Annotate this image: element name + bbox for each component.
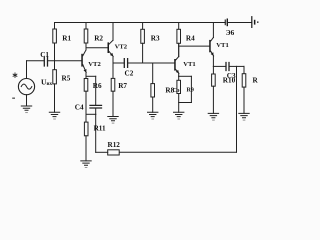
wire source to C1 [27, 60, 44, 62]
polarity mark * [13, 73, 17, 77]
transistor VT1 (second) [209, 23, 213, 67]
wire feedback vertical [236, 66, 238, 152]
capacitor C1 [44, 57, 47, 66]
resistor R10 [212, 66, 216, 113]
ground (below R5) [49, 112, 59, 119]
wire C2 to VT1 base [128, 62, 174, 64]
transistor VT2 (first) [81, 50, 86, 73]
source Uвх [18, 61, 34, 106]
svg-text:C1: C1 [40, 51, 49, 59]
wire rail right segment [227, 22, 251, 24]
capacitor C4 [90, 76, 102, 114]
svg-text:R4: R4 [186, 34, 195, 42]
wire emitter to C3 [213, 65, 225, 67]
ground (below R7) [108, 117, 118, 124]
svg-text:C2: C2 [125, 69, 134, 77]
transistor VT2 (second) [108, 23, 114, 64]
ground (below emitter network) [174, 112, 184, 119]
transistor VT1 (first) [174, 43, 179, 76]
resistor R6 [84, 73, 88, 123]
emitter network loop of VT1 [179, 76, 192, 102]
wire R4 node to VT1 second base [179, 45, 210, 47]
wire emitter branch to C4 [86, 75, 96, 77]
battery B1 (supply) [251, 16, 258, 28]
svg-text:VT1: VT1 [216, 42, 228, 49]
wire C4 bottom connector [86, 113, 96, 115]
svg-text:C4: C4 [75, 104, 84, 112]
wire feedback bottom [119, 151, 236, 153]
resistor R load [242, 66, 246, 113]
polarity mark - [12, 98, 15, 99]
wire C1 to VT2 base [48, 60, 82, 62]
svg-text:Э6: Э6 [226, 29, 235, 37]
svg-text:R6: R6 [93, 82, 102, 90]
svg-text:C3: C3 [227, 72, 236, 80]
svg-text:R1: R1 [62, 34, 71, 42]
svg-text:Сэ: Сэ [173, 88, 180, 94]
ground (below R11) [81, 161, 91, 168]
resistor Rэ (emitter) [177, 76, 181, 112]
capacitor C3 [226, 63, 229, 71]
svg-text:R9: R9 [187, 88, 194, 94]
wire C3 to output node [229, 65, 244, 67]
resistor R3 [141, 23, 145, 64]
resistor R8 [151, 63, 155, 112]
ground (below R10) [208, 113, 218, 120]
wire top supply rail [55, 22, 226, 24]
svg-text:R2: R2 [94, 34, 103, 42]
svg-text:VT2: VT2 [115, 43, 128, 50]
resistor R5 [53, 61, 57, 113]
svg-text:VT2: VT2 [88, 61, 101, 68]
resistor R1 [53, 23, 57, 61]
ground (below R8) [148, 112, 158, 119]
wire emitter node to C2 [113, 62, 124, 64]
resistor R12 [96, 114, 120, 155]
svg-text:R12: R12 [108, 141, 121, 149]
svg-text:VT1: VT1 [183, 61, 195, 68]
svg-text:R7: R7 [118, 82, 127, 90]
resistor R11 [84, 122, 88, 161]
svg-text:R: R [253, 76, 259, 84]
ground (below R load) [239, 113, 249, 120]
resistor R7 [111, 63, 115, 117]
resistor R2 [84, 23, 88, 51]
svg-text:R3: R3 [151, 34, 160, 42]
svg-text:R11: R11 [94, 125, 106, 133]
ground (below source) [21, 106, 31, 113]
resistor R4 [177, 23, 181, 57]
svg-text:R5: R5 [62, 74, 71, 82]
capacitor/battery Э6 plates [225, 19, 228, 27]
capacitor C2 [124, 59, 127, 68]
wire R2 node to VT2 second base [86, 47, 108, 49]
